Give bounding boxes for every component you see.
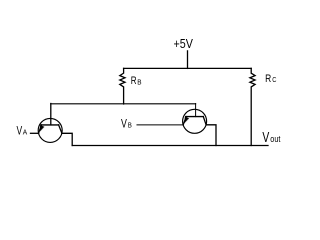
wire Q1 right lead to bottom rail	[62, 133, 72, 145]
svg-text:C: C	[272, 77, 276, 84]
label Vout	[262, 130, 280, 146]
svg-text:+5V: +5V	[174, 36, 194, 51]
transistor Q1	[38, 104, 62, 143]
label RB	[131, 75, 142, 87]
svg-text:V: V	[17, 123, 23, 137]
resistor RC	[250, 68, 255, 145]
svg-text:A: A	[23, 127, 28, 136]
svg-text:V: V	[121, 116, 128, 130]
wire Q2 right lead to bottom rail	[206, 125, 216, 146]
wire top rail	[124, 67, 252, 69]
svg-text:out: out	[270, 134, 280, 145]
svg-text:B: B	[128, 121, 132, 130]
resistor RB	[120, 68, 125, 104]
wire VB to Q2 base	[137, 124, 183, 126]
power +5V label	[174, 36, 194, 51]
wire VA to Q1 base	[31, 132, 39, 134]
svg-text:B: B	[137, 79, 142, 86]
label RC	[265, 73, 276, 85]
wire +5V tap	[187, 51, 189, 69]
label VA	[17, 123, 28, 137]
svg-text:V: V	[262, 130, 269, 146]
wire bottom rail output node	[72, 145, 268, 147]
wire base rail	[51, 103, 196, 105]
transistor Q2	[183, 104, 207, 134]
svg-text:R: R	[265, 73, 271, 85]
label VB	[121, 116, 132, 130]
svg-text:R: R	[131, 75, 137, 87]
